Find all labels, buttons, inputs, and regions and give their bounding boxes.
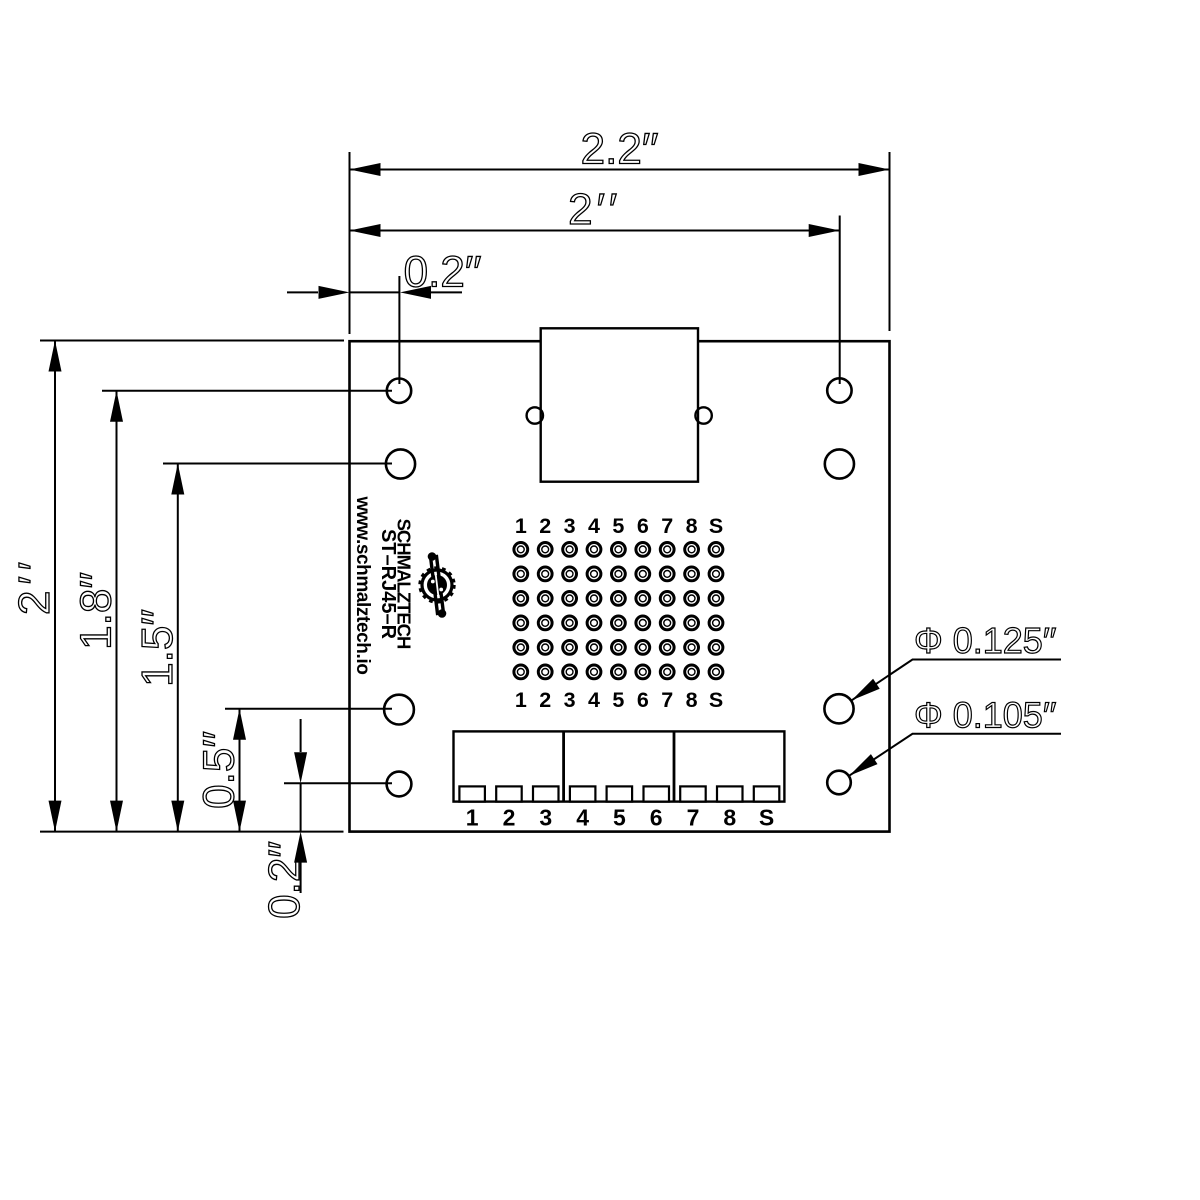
svg-text:5: 5	[612, 688, 624, 712]
svg-text:8: 8	[686, 514, 698, 538]
svg-text:S: S	[759, 805, 774, 831]
svg-text:3: 3	[564, 688, 576, 712]
svg-text:7: 7	[661, 514, 673, 538]
svg-text:5: 5	[612, 514, 624, 538]
svg-text:5: 5	[613, 805, 626, 831]
svg-text:6: 6	[637, 688, 649, 712]
svg-text:4: 4	[588, 514, 600, 538]
svg-text:0.2′′: 0.2′′	[404, 248, 482, 297]
svg-text:1: 1	[466, 805, 479, 831]
svg-text:7: 7	[687, 805, 700, 831]
svg-text:Φ 0.105′′: Φ 0.105′′	[914, 695, 1057, 736]
svg-text:2.2′′: 2.2′′	[581, 125, 659, 174]
svg-text:S: S	[709, 688, 723, 712]
svg-text:Φ 0.125′′: Φ 0.125′′	[914, 620, 1057, 661]
svg-text:2′′: 2′′	[568, 185, 621, 234]
svg-text:www.schmalztech.io: www.schmalztech.io	[352, 496, 373, 675]
svg-text:2: 2	[539, 514, 551, 538]
svg-text:1.8′′: 1.8′′	[72, 572, 121, 650]
svg-text:SCHMALZTECH: SCHMALZTECH	[394, 519, 415, 649]
svg-text:0.5′′: 0.5′′	[195, 731, 244, 809]
svg-text:1: 1	[515, 514, 527, 538]
svg-text:3: 3	[539, 805, 552, 831]
svg-text:2: 2	[539, 688, 551, 712]
svg-text:3: 3	[564, 514, 576, 538]
svg-text:0.2′′: 0.2′′	[260, 841, 309, 919]
svg-text:2: 2	[503, 805, 516, 831]
svg-text:6: 6	[650, 805, 663, 831]
svg-text:1: 1	[515, 688, 527, 712]
svg-text:1.5′′: 1.5′′	[133, 609, 182, 687]
svg-text:6: 6	[637, 514, 649, 538]
svg-text:4: 4	[576, 805, 589, 831]
svg-text:8: 8	[686, 688, 698, 712]
svg-text:S: S	[709, 514, 723, 538]
svg-text:8: 8	[723, 805, 736, 831]
svg-text:2′′: 2′′	[10, 556, 59, 615]
svg-text:7: 7	[661, 688, 673, 712]
svg-text:4: 4	[588, 688, 600, 712]
